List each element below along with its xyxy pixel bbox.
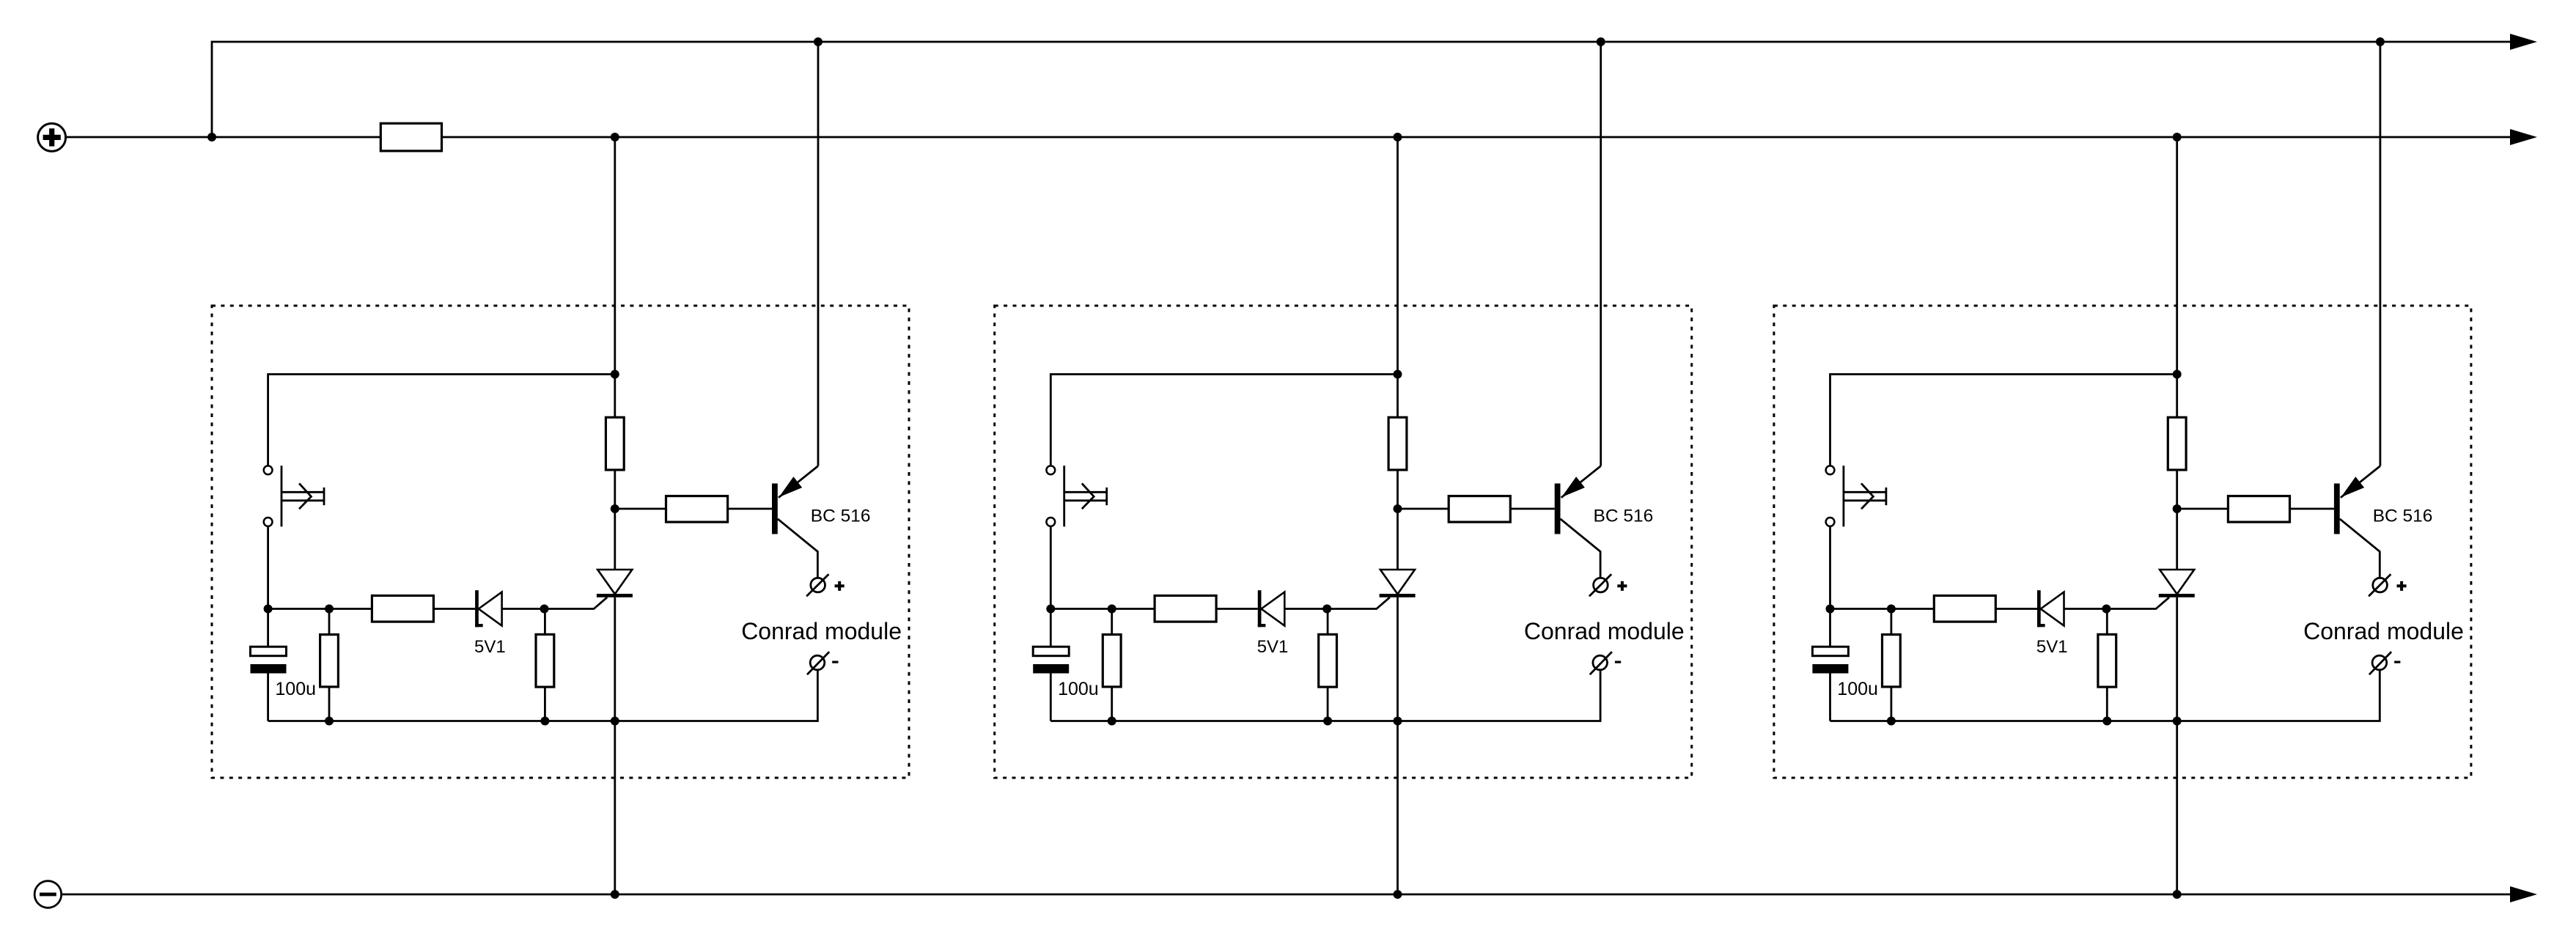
wire: + rail down to resistor R31 (thyristor branch) — [2176, 137, 2178, 417]
resistor R13 (series) — [372, 596, 433, 622]
module 3 output terminal minus — [2372, 655, 2387, 670]
wire: RC row — [1830, 608, 1935, 610]
transistor Q3 base bar — [2334, 484, 2340, 534]
wire: R32 stubs — [1890, 609, 1892, 635]
resistor R32 — [1883, 635, 1901, 687]
module 3 output terminal plus — [2373, 578, 2388, 592]
wire: R12 stubs — [328, 609, 331, 635]
resistor R24 (gate) — [1319, 634, 1337, 687]
wire: base branch — [1398, 508, 1449, 510]
transistor Q3 collector wire — [2340, 519, 2380, 578]
- rail wire — [62, 894, 2516, 896]
transistor Q3 emitter arrow — [2341, 476, 2364, 497]
wire: thyristor cathode down to module 3 ground — [2176, 597, 2178, 894]
wire: + rail down to resistor R11 (thyristor branch) — [614, 137, 616, 417]
+ rail arrow — [2510, 129, 2537, 145]
thyristor TH1 triangle — [597, 570, 632, 594]
module 1 output terminal plus — [811, 578, 825, 592]
wire: RC row — [268, 608, 372, 610]
node: R12 top junction — [325, 605, 334, 614]
resistor R11 — [606, 417, 624, 470]
node: module 1 top rail tap — [814, 37, 823, 46]
node: module 2 + rail tap — [1394, 133, 1402, 141]
svg-text:100u: 100u — [1837, 679, 1878, 699]
svg-text:Conrad module: Conrad module — [741, 618, 902, 644]
node: R12 bottom junction — [325, 717, 334, 726]
transistor Q1 emitter wire — [779, 466, 818, 498]
resistor R21 — [1388, 417, 1407, 470]
resistor R15 (base) — [666, 496, 728, 523]
wire: S2 to capacitor node — [1050, 526, 1052, 609]
wire: R13 to zener D1 — [433, 608, 475, 610]
wire: module 1 inner top wire — [268, 375, 615, 466]
wire: module 3 inner ground wire — [1830, 670, 2380, 721]
wire: R11 to thyristor anode — [614, 470, 616, 570]
module 2 output terminal plus — [1594, 578, 1608, 592]
pushbutton S3 bottom contact — [1826, 518, 1835, 526]
wire: thyristor cathode down to module 2 ground — [1396, 597, 1399, 894]
node: module 1 + rail tap — [611, 133, 619, 141]
capacitor C1 bottom plate — [251, 664, 287, 674]
capacitor C3 top plate — [1812, 647, 1848, 656]
thyristor TH3 cathode bar — [2159, 594, 2195, 597]
node: module 1 inner ground junction — [611, 717, 619, 726]
thyristor TH2 gate wire — [1327, 597, 1390, 609]
wire: zener D1 to gate node — [502, 608, 545, 610]
capacitor C3 bottom plate — [1812, 664, 1848, 674]
wire: R21 to thyristor anode — [1396, 470, 1399, 570]
module 1 output terminal minus — [810, 655, 825, 670]
wire: R23 to zener D2 — [1216, 608, 1258, 610]
pushbutton S2 actuator — [1064, 491, 1107, 493]
pushbutton S3 actuator — [1844, 491, 1886, 493]
resistor R23 (series) — [1155, 596, 1216, 622]
wire: R31 to thyristor anode — [2176, 470, 2178, 570]
wire: S1 to capacitor node — [267, 526, 269, 609]
node: module 2 - rail tap — [1394, 890, 1402, 899]
resistor R22 — [1103, 635, 1121, 687]
transistor Q3 emitter wire — [2341, 466, 2380, 498]
+ rail wire — [442, 136, 2517, 139]
thyristor TH1 cathode bar — [597, 594, 633, 597]
svg-text:5V1: 5V1 — [2036, 637, 2068, 657]
wire: top rail down to transistor Q3 emitter — [2379, 42, 2381, 466]
node: module 2 top rail tap — [1597, 37, 1605, 46]
wire: capacitor C2 stubs — [1050, 609, 1052, 647]
node: R34 bottom junction — [2102, 717, 2111, 726]
wire: base branch — [2177, 508, 2229, 510]
node: R24 bottom junction — [1323, 717, 1332, 726]
resistor R25 (base) — [1449, 496, 1510, 523]
pushbutton S1 contact bar — [281, 466, 283, 526]
node: module 3 + rail tap — [2173, 133, 2182, 141]
thyristor TH2 cathode bar — [1380, 594, 1416, 597]
node: gate junction — [1322, 605, 1331, 614]
node: R32 bottom junction — [1887, 717, 1896, 726]
top rail wire — [212, 42, 2516, 137]
transistor Q1 base bar — [772, 484, 778, 534]
node: module 3 capacitor top junction — [1826, 605, 1835, 614]
node: R32 top junction — [1887, 605, 1896, 614]
wire: R34 stubs — [2106, 609, 2108, 635]
transistor Q2 base bar — [1555, 484, 1561, 534]
zener diode D1 cathode bar — [475, 590, 479, 627]
pushbutton S2 contact bar — [1063, 466, 1065, 526]
node: module 2 inner ground junction — [1394, 717, 1402, 726]
thyristor TH1 gate wire — [545, 597, 608, 609]
node: module 2 capacitor top junction — [1046, 605, 1055, 614]
pushbutton S2 bottom contact — [1046, 518, 1055, 526]
wire: base branch — [615, 508, 666, 510]
node: + rail / top-rail riser junction — [207, 133, 216, 141]
thyristor TH3 gate wire — [2106, 597, 2169, 609]
wire: top rail down to transistor Q1 emitter — [817, 42, 820, 466]
wire: R22 stubs — [1111, 609, 1113, 635]
module 1 dashed enclosure — [212, 306, 909, 778]
zener diode D3 cathode bar — [2037, 590, 2041, 627]
node: R22 top junction — [1108, 605, 1116, 614]
resistor R14 (gate) — [536, 634, 554, 687]
transistor Q1 emitter arrow — [779, 476, 803, 497]
zener diode D2 triangle — [1262, 592, 1285, 626]
module 2 output terminal minus — [1593, 655, 1608, 670]
wire: module 3 inner top wire — [1830, 375, 2177, 466]
transistor Q2 emitter wire — [1561, 466, 1601, 498]
wire: R33 to zener D3 — [1995, 608, 2037, 610]
node: module 3 inner ground junction — [2173, 717, 2182, 726]
node: module 1 inner top junction — [611, 370, 619, 379]
svg-text:BC 516: BC 516 — [1594, 507, 1654, 526]
node: R14 bottom junction — [540, 717, 549, 726]
wire: + rail down to resistor R21 (thyristor branch) — [1396, 137, 1399, 417]
wire: thyristor cathode down to module 1 ground — [614, 597, 616, 894]
node: module 3 top rail tap — [2376, 37, 2385, 46]
svg-text:100u: 100u — [275, 679, 316, 699]
thyristor TH2 triangle — [1380, 570, 1415, 594]
pushbutton S3 top contact — [1826, 466, 1835, 474]
pushbutton S2 top contact — [1046, 466, 1055, 474]
wire: base resistor to transistor Q1 base — [728, 508, 772, 510]
wire: RC row — [1050, 608, 1155, 610]
node: module 2 thyristor gate-divider junction — [1394, 504, 1402, 513]
capacitor C1 top plate — [251, 647, 287, 656]
plus supply terminal — [38, 123, 66, 151]
svg-text:5V1: 5V1 — [1257, 637, 1289, 657]
pushbutton S3 contact bar — [1842, 466, 1844, 526]
wire: base resistor to transistor Q2 base — [1510, 508, 1554, 510]
module 2 dashed enclosure — [995, 306, 1692, 778]
wire: base resistor to transistor Q3 base — [2290, 508, 2334, 510]
svg-text:100u: 100u — [1058, 679, 1099, 699]
node: module 3 thyristor gate-divider junction — [2173, 504, 2182, 513]
resistor R31 — [2168, 417, 2186, 470]
capacitor C2 bottom plate — [1033, 664, 1069, 674]
node: R22 bottom junction — [1108, 717, 1116, 726]
thyristor TH3 triangle — [2160, 570, 2194, 594]
svg-text:Conrad module: Conrad module — [1524, 618, 1685, 644]
wire: S3 to capacitor node — [1829, 526, 1831, 609]
capacitor C2 top plate — [1033, 647, 1069, 656]
resistor R35 (base) — [2228, 496, 2289, 523]
svg-text:Conrad module: Conrad module — [2303, 618, 2464, 644]
resistor R0 on + rail — [380, 123, 441, 151]
- rail arrow — [2510, 886, 2537, 902]
zener diode D1 triangle — [479, 592, 502, 626]
wire: R24 stubs — [1327, 609, 1329, 635]
wire: top rail down to transistor Q2 emitter — [1600, 42, 1602, 466]
zener diode D2 cathode bar — [1258, 590, 1262, 627]
wire: module 2 inner top wire — [1050, 375, 1397, 466]
wire: capacitor C1 stubs — [267, 609, 269, 647]
node: module 2 inner top junction — [1394, 370, 1402, 379]
node: gate junction — [540, 605, 549, 614]
wire from plus terminal to rail resistor — [66, 136, 381, 139]
svg-text:5V1: 5V1 — [474, 637, 506, 657]
wire: capacitor C3 stubs — [1829, 609, 1831, 647]
svg-text:BC 516: BC 516 — [2373, 507, 2433, 526]
wire: module 1 inner ground wire — [268, 670, 818, 721]
node: module 3 - rail tap — [2173, 890, 2182, 899]
svg-text:BC 516: BC 516 — [811, 507, 871, 526]
top rail arrow — [2510, 34, 2537, 50]
pushbutton S1 bottom contact — [264, 518, 273, 526]
zener diode D3 triangle — [2041, 592, 2064, 626]
transistor Q2 collector wire — [1561, 519, 1601, 578]
wire: zener D3 to gate node — [2064, 608, 2107, 610]
wire: zener D2 to gate node — [1284, 608, 1327, 610]
transistor Q2 emitter arrow — [1561, 476, 1585, 497]
node: gate junction — [2102, 605, 2111, 614]
node: module 3 inner top junction — [2173, 370, 2182, 379]
transistor Q1 collector wire — [778, 519, 818, 578]
wire: module 2 inner ground wire — [1050, 670, 1600, 721]
node: module 1 thyristor gate-divider junction — [611, 504, 619, 513]
resistor R33 (series) — [1934, 596, 1995, 622]
node: module 1 capacitor top junction — [264, 605, 273, 614]
module 3 dashed enclosure — [1774, 306, 2471, 778]
node: module 1 - rail tap — [611, 890, 619, 899]
resistor R12 — [320, 635, 339, 687]
wire: R14 stubs — [544, 609, 546, 635]
pushbutton S1 top contact — [264, 466, 273, 474]
minus supply terminal — [34, 881, 62, 908]
resistor R34 (gate) — [2098, 634, 2116, 687]
pushbutton S1 actuator — [281, 491, 324, 493]
